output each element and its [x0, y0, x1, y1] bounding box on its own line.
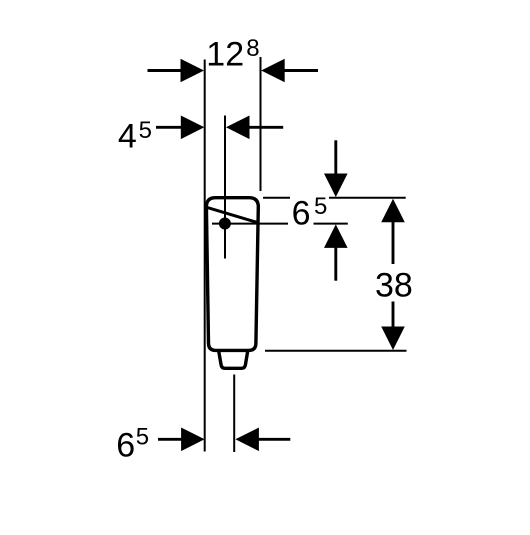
left extension line: [204, 60, 206, 452]
cistern tank outline: [206, 198, 258, 351]
dimension 45 right arrow: [226, 116, 283, 140]
dimension 65 up arrow: [324, 224, 348, 280]
mounting hole dot: [219, 218, 231, 230]
dimension 38 down arrow: [381, 302, 405, 351]
outlet trapezoid: [219, 351, 248, 369]
svg-text:6: 6: [292, 194, 311, 232]
svg-text:38: 38: [375, 266, 413, 304]
svg-text:5: 5: [314, 193, 327, 220]
dimension 65 bottom right arrow: [235, 428, 290, 452]
outlet centerline: [233, 375, 235, 453]
svg-text:5: 5: [139, 117, 152, 144]
dimension 38 up arrow: [381, 199, 405, 264]
hole centerline: [224, 116, 226, 259]
right extension line: [260, 57, 262, 191]
dimension 45 left arrow: [156, 116, 204, 140]
svg-text:5: 5: [136, 423, 149, 450]
top reference line (tank top level): [263, 197, 290, 199]
tank lid diagonal: [207, 207, 258, 222]
dimension 128 left arrow: [148, 59, 205, 83]
bottom reference line (tank bottom level): [265, 350, 407, 352]
svg-text:8: 8: [246, 35, 259, 62]
hole horizontal reference line: [212, 223, 288, 225]
dimension 128 right arrow: [261, 59, 318, 83]
dimension 65 bottom left arrow: [158, 428, 205, 452]
svg-text:12: 12: [206, 35, 244, 73]
svg-text:4: 4: [118, 118, 137, 156]
dimension 65 down arrow: [324, 140, 348, 197]
svg-text:6: 6: [116, 427, 135, 465]
